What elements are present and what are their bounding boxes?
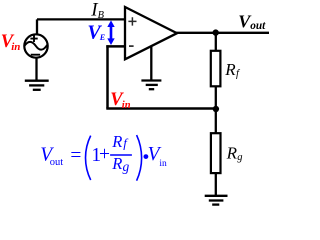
svg-text:R: R xyxy=(224,60,236,79)
svg-text:=: = xyxy=(70,146,81,167)
svg-text:R: R xyxy=(111,132,122,151)
svg-text:in: in xyxy=(159,159,167,169)
svg-text:g: g xyxy=(237,152,242,163)
svg-text:out: out xyxy=(250,20,266,32)
svg-text:R: R xyxy=(226,144,238,163)
svg-text:R: R xyxy=(111,154,122,173)
svg-text:B: B xyxy=(98,10,105,21)
svg-text:+: + xyxy=(99,144,110,165)
svg-text:g: g xyxy=(123,159,130,174)
svg-text:in: in xyxy=(122,100,131,111)
svg-text:out: out xyxy=(50,157,64,168)
svg-text:E: E xyxy=(99,33,106,42)
svg-text:in: in xyxy=(11,41,20,53)
